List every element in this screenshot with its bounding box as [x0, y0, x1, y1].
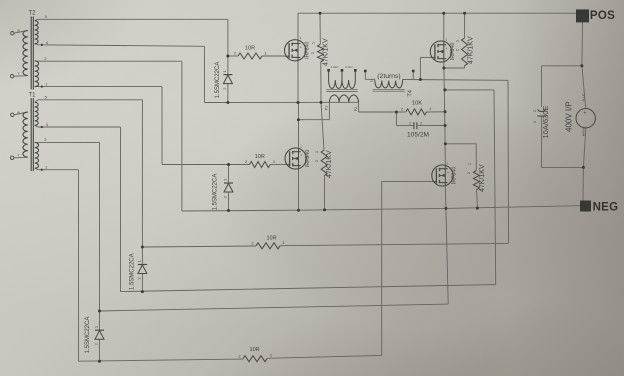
svg-text:1 turn: 1 turn — [345, 65, 353, 69]
svg-text:1.5SMC22CA: 1.5SMC22CA — [85, 317, 91, 354]
svg-text:10R: 10R — [266, 236, 276, 242]
svg-text:+: + — [583, 110, 586, 116]
svg-text:10R: 10R — [250, 347, 260, 353]
svg-text:(2turns): (2turns) — [377, 73, 400, 80]
svg-text:PLUG: PLUG — [581, 92, 585, 101]
svg-text:1.5SMC22CA: 1.5SMC22CA — [130, 253, 136, 290]
svg-text:IRF840: IRF840 — [452, 167, 458, 184]
svg-text:T2: T2 — [28, 11, 36, 17]
svg-text:IRF840: IRF840 — [305, 150, 311, 167]
svg-text:47K/1KV: 47K/1KV — [326, 150, 333, 178]
svg-text:P1: P1 — [325, 106, 329, 110]
svg-text:47K/1KV: 47K/1KV — [479, 164, 486, 192]
svg-text:105/2M: 105/2M — [407, 131, 429, 138]
svg-text:P2: P2 — [354, 107, 358, 111]
svg-text:10R: 10R — [255, 154, 265, 160]
svg-text:NEG: NEG — [593, 202, 619, 214]
svg-text:400V I/P: 400V I/P — [565, 101, 574, 132]
svg-text:MAINS: MAINS — [582, 126, 586, 136]
svg-text:47K/1KV: 47K/1KV — [467, 36, 474, 64]
svg-text:10K: 10K — [412, 101, 422, 107]
svg-text:1.5SMC22CA: 1.5SMC22CA — [213, 174, 219, 211]
svg-text:1 turn: 1 turn — [331, 65, 339, 69]
svg-text:1.5SMC22CA: 1.5SMC22CA — [215, 62, 221, 99]
svg-text:47K/1KV: 47K/1KV — [322, 38, 329, 66]
svg-text:IRF840: IRF840 — [304, 41, 310, 58]
svg-text:T1: T1 — [28, 92, 36, 98]
svg-text:POS: POS — [590, 10, 615, 22]
svg-text:10R: 10R — [245, 46, 255, 52]
svg-text:10A/630E: 10A/630E — [541, 106, 550, 139]
svg-text:T4: T4 — [407, 90, 413, 96]
